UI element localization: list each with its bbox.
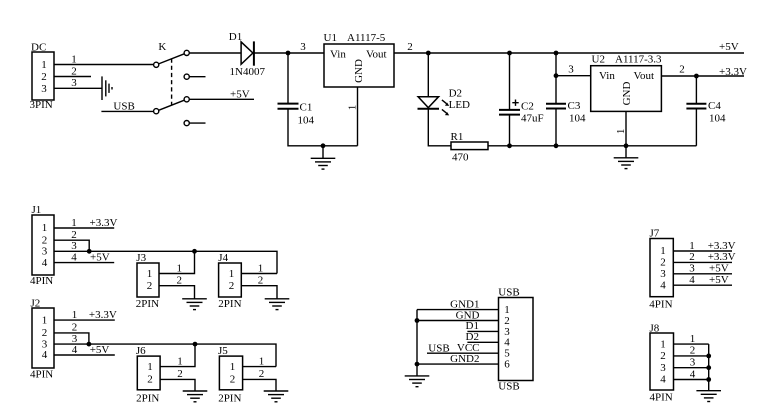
wire rail down to LED: [427, 53, 429, 97]
svg-text:D1: D1: [229, 31, 242, 43]
svg-text:1: 1: [660, 338, 666, 350]
wire USB pin1 GND1: [417, 298, 499, 310]
node U1 ground junction: [321, 143, 326, 148]
node LED tap: [426, 51, 431, 56]
svg-text:4PIN: 4PIN: [649, 299, 672, 311]
svg-text:1: 1: [41, 59, 47, 71]
wire C3 junction to U2 Vin: [556, 64, 591, 76]
svg-text:2: 2: [147, 373, 153, 385]
svg-text:U2: U2: [592, 53, 605, 65]
svg-text:1: 1: [690, 333, 696, 345]
regulator U2: [591, 53, 662, 111]
svg-text:2PIN: 2PIN: [218, 298, 241, 310]
svg-text:USB: USB: [113, 100, 134, 112]
svg-text:2: 2: [660, 350, 666, 362]
wire U2 GND pin down: [615, 111, 627, 145]
svg-text:GND: GND: [621, 82, 633, 106]
svg-text:3: 3: [568, 64, 574, 76]
node C2 top: [507, 51, 512, 56]
wire LED to R1: [428, 109, 451, 146]
svg-text:3PIN: 3PIN: [30, 99, 53, 111]
svg-text:USB: USB: [498, 381, 519, 393]
svg-text:+5V: +5V: [709, 274, 729, 286]
ground at J4: [265, 299, 290, 310]
svg-text:2: 2: [72, 322, 78, 334]
node C3 top: [554, 51, 559, 56]
svg-text:2: 2: [229, 280, 235, 292]
wire J6 pin2 to ground: [160, 368, 195, 391]
svg-text:3: 3: [42, 246, 48, 258]
svg-text:D2: D2: [449, 87, 462, 99]
connector J6 (2PIN): [136, 345, 160, 405]
connector USB: [498, 287, 533, 393]
svg-text:U1: U1: [324, 32, 337, 44]
wire switch to diode: [189, 52, 241, 54]
switch K: [154, 41, 206, 126]
wire J1 pin2: [54, 229, 89, 251]
node J1 pin2-pin3 junction: [87, 249, 92, 254]
wire J6 pin1 up to bus: [160, 344, 195, 367]
svg-text:2: 2: [407, 41, 413, 53]
svg-text:4: 4: [689, 274, 695, 286]
connector DC (3PIN): [30, 42, 55, 112]
svg-text:2: 2: [689, 251, 695, 263]
svg-text:J4: J4: [218, 252, 228, 264]
svg-text:+5V: +5V: [709, 263, 729, 275]
wire junction down to C1: [287, 53, 289, 103]
svg-text:C4: C4: [708, 100, 721, 112]
wire USB pin3 D1: [466, 320, 499, 332]
svg-text:+5V: +5V: [719, 41, 739, 53]
svg-text:4: 4: [660, 374, 666, 386]
wire J5 pin2 to ground: [243, 368, 276, 391]
svg-text:1: 1: [230, 361, 236, 373]
svg-text:2: 2: [259, 368, 265, 380]
svg-text:6: 6: [504, 359, 510, 371]
svg-text:K: K: [158, 41, 166, 53]
node J8 pin4 junction: [706, 377, 711, 382]
node U2 input junction: [554, 73, 559, 78]
svg-text:3: 3: [660, 362, 666, 374]
wire J7 pin2 +3.3V: [673, 251, 735, 263]
svg-text:2PIN: 2PIN: [218, 392, 241, 404]
wire J4 pin1 up to bus: [241, 262, 277, 274]
svg-text:1: 1: [42, 222, 48, 234]
capacitor C1: [278, 101, 315, 126]
svg-text:1: 1: [147, 361, 153, 373]
svg-text:4: 4: [660, 279, 666, 291]
connector J5 (2PIN): [218, 345, 243, 405]
wire diode to U1 Vin: [254, 41, 324, 53]
svg-text:C3: C3: [568, 100, 581, 112]
svg-text:2: 2: [690, 345, 696, 357]
node J3 bus junction: [192, 249, 197, 254]
node C3 bottom: [554, 143, 559, 148]
svg-text:A1117-3.3: A1117-3.3: [615, 53, 662, 65]
svg-text:LED: LED: [449, 99, 470, 111]
svg-text:R1: R1: [451, 131, 464, 143]
wire USB ground stem: [416, 310, 418, 376]
svg-text:2: 2: [147, 280, 153, 292]
ground at J5: [264, 391, 289, 402]
node J6 bus junction: [193, 342, 198, 347]
svg-text:3: 3: [41, 83, 47, 95]
wire C4 bottom to ground rail: [695, 109, 697, 146]
resistor R1: [451, 131, 489, 164]
wire J8 pin3: [674, 357, 709, 369]
wire USB pin2 GND: [417, 309, 499, 321]
wire J8 pin1: [674, 333, 709, 345]
svg-text:3: 3: [690, 357, 696, 369]
node C1/U1 input junction: [286, 51, 291, 56]
svg-text:+5V: +5V: [90, 251, 110, 263]
svg-text:J7: J7: [650, 228, 660, 240]
node J8 pin3 junction: [706, 365, 711, 370]
svg-text:2PIN: 2PIN: [136, 392, 159, 404]
svg-text:4PIN: 4PIN: [650, 391, 673, 403]
svg-text:2PIN: 2PIN: [136, 298, 159, 310]
wire U1 GND pin down: [347, 87, 359, 146]
wire switch to +5V net: [189, 88, 254, 100]
svg-text:3: 3: [300, 41, 306, 53]
svg-text:+5V: +5V: [90, 344, 110, 356]
svg-text:104: 104: [569, 112, 586, 124]
svg-text:Vin: Vin: [330, 48, 346, 60]
svg-text:470: 470: [452, 151, 469, 163]
node C2 bottom: [507, 143, 512, 148]
wire J8 pin2: [674, 345, 709, 357]
svg-text:1: 1: [71, 53, 77, 65]
wire C3 bottom: [555, 109, 557, 146]
svg-text:GND2: GND2: [450, 353, 479, 365]
svg-text:Vout: Vout: [366, 48, 387, 60]
svg-text:2: 2: [258, 275, 264, 287]
svg-text:J3: J3: [136, 252, 146, 264]
wire J2 pin4 +5V: [54, 344, 115, 356]
wire J1 pin4 +5V: [54, 251, 114, 263]
node C4 top: [694, 74, 699, 79]
svg-text:1: 1: [347, 105, 359, 111]
wire J8 pin4: [674, 368, 709, 380]
svg-text:4: 4: [42, 257, 48, 269]
svg-text:3: 3: [689, 263, 695, 275]
ground under U1: [322, 146, 324, 159]
svg-text:Vin: Vin: [599, 70, 615, 82]
wire USB pin5 VCC: [427, 342, 499, 355]
svg-text:4: 4: [690, 368, 696, 380]
svg-text:1: 1: [72, 309, 78, 321]
wire C2 bottom: [509, 115, 511, 146]
wire U1 Vout +5V rail: [394, 41, 744, 53]
wire J7 pin1 +3.3V: [673, 240, 735, 252]
wire J2 pin3 bus: [54, 333, 276, 367]
node U2 ground junction: [624, 143, 629, 148]
svg-text:+3.3V: +3.3V: [89, 309, 117, 321]
wire J5 pin1 up to bus: [243, 355, 276, 367]
wire USB pin4 D2: [466, 331, 499, 343]
svg-text:3: 3: [71, 240, 77, 252]
wire J8 ground stem: [708, 344, 710, 391]
svg-text:C1: C1: [300, 101, 313, 113]
wire DC pin2 stub: [54, 65, 91, 77]
svg-text:4: 4: [72, 344, 78, 356]
svg-text:2: 2: [679, 64, 685, 76]
capacitor C3: [546, 100, 586, 125]
wire DC pin1 to switch: [54, 53, 154, 65]
wire rail down to C3: [555, 53, 557, 103]
svg-text:2: 2: [660, 257, 666, 269]
wire DC pin3 to ground: [54, 77, 102, 89]
svg-text:4PIN: 4PIN: [30, 368, 53, 380]
wire J2 pin2: [54, 322, 89, 344]
wire R1 to ground rail: [488, 145, 696, 147]
svg-text:104: 104: [709, 112, 726, 124]
connector J1 (4PIN): [30, 204, 54, 287]
ground at J3: [182, 299, 207, 310]
svg-text:J6: J6: [136, 345, 146, 357]
svg-text:J1: J1: [32, 204, 42, 216]
svg-text:2: 2: [177, 368, 183, 380]
svg-text:J5: J5: [218, 345, 228, 357]
wire J3 pin1 up to bus: [159, 251, 195, 274]
svg-text:1: 1: [259, 355, 265, 367]
wire J3 pin2 to ground: [159, 275, 195, 299]
node USB pin2 junction: [415, 318, 420, 323]
ground at J8: [696, 391, 721, 402]
wire J1 pin1 +3.3V: [54, 217, 117, 229]
svg-text:2: 2: [71, 65, 77, 77]
wire U2 Vout +3.3V: [661, 64, 747, 78]
svg-text:1N4007: 1N4007: [230, 66, 266, 78]
node J8 pin2 junction: [706, 354, 711, 359]
svg-text:4: 4: [71, 251, 77, 263]
svg-text:1: 1: [229, 268, 235, 280]
svg-text:+5V: +5V: [230, 88, 250, 100]
svg-text:USB: USB: [428, 343, 449, 355]
diode D1: [229, 31, 266, 78]
svg-text:3: 3: [71, 77, 77, 89]
svg-text:C2: C2: [521, 100, 534, 112]
svg-text:4PIN: 4PIN: [30, 275, 53, 287]
connector J3 (2PIN): [136, 252, 159, 310]
wire J4 pin2 to ground: [241, 275, 277, 299]
svg-text:104: 104: [298, 114, 315, 126]
svg-text:1: 1: [660, 245, 666, 257]
svg-text:1: 1: [42, 314, 48, 326]
wire J7 pin3 +5V: [673, 263, 732, 275]
svg-text:1: 1: [689, 240, 695, 252]
wire J1 pin3 bus: [54, 240, 277, 273]
svg-text:+3.3V: +3.3V: [719, 66, 747, 78]
svg-text:A1117-5: A1117-5: [347, 32, 386, 44]
svg-text:2: 2: [230, 373, 236, 385]
svg-text:2: 2: [42, 327, 48, 339]
svg-text:1: 1: [615, 129, 627, 135]
svg-text:+3.3V: +3.3V: [708, 240, 736, 252]
ground (sideways) at DC pin3: [102, 76, 112, 100]
svg-text:+3.3V: +3.3V: [90, 217, 118, 229]
svg-text:1: 1: [177, 355, 183, 367]
connector J4 (2PIN): [218, 252, 241, 310]
wire J7 pin4 +5V: [673, 274, 732, 286]
wire USB pin6 GND2: [417, 353, 499, 365]
wire J2 pin1 +3.3V: [54, 309, 117, 321]
ground under U2: [625, 146, 627, 158]
LED D2: [418, 87, 471, 115]
capacitor C2: [499, 100, 544, 125]
wire junction down to C4: [695, 76, 697, 103]
svg-text:3: 3: [660, 268, 666, 280]
connector J8 (4PIN): [650, 322, 674, 403]
svg-text:47uF: 47uF: [521, 112, 544, 124]
wire USB to switch: [101, 110, 153, 112]
svg-text:2: 2: [41, 71, 47, 83]
svg-text:1: 1: [258, 262, 264, 274]
svg-text:1: 1: [147, 268, 153, 280]
svg-text:1: 1: [177, 262, 183, 274]
node J2 pin2-pin3 junction: [87, 342, 92, 347]
svg-text:Vout: Vout: [634, 70, 655, 82]
svg-text:GND: GND: [353, 59, 365, 83]
wire C1 bottom to ground rail: [288, 109, 358, 146]
svg-text:2: 2: [177, 275, 183, 287]
node USB pin6 junction: [415, 362, 420, 367]
connector J2 (4PIN): [30, 298, 54, 381]
svg-text:+3.3V: +3.3V: [708, 251, 736, 263]
connector J7 (4PIN): [649, 228, 673, 311]
svg-text:4: 4: [42, 349, 48, 361]
capacitor C4: [686, 100, 726, 125]
ground at USB: [405, 376, 430, 387]
ground at J6: [183, 391, 208, 402]
wire rail down to C2: [509, 53, 511, 109]
svg-text:1: 1: [71, 217, 77, 229]
regulator U1: [324, 32, 395, 87]
